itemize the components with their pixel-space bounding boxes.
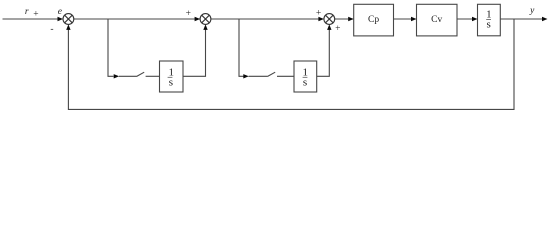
wire loop1 arrow to switch — [119, 75, 137, 77]
svg-text:+: + — [33, 10, 38, 20]
block U1 integrator 1/s — [160, 61, 184, 92]
summing junction sum3 — [324, 14, 335, 25]
svg-text:Cv: Cv — [431, 15, 442, 25]
svg-text:s: s — [169, 76, 173, 88]
arrowhead into sum2 — [195, 17, 201, 21]
svg-text:+: + — [335, 24, 340, 34]
wire sum3 to Cp — [335, 18, 353, 20]
wire Cv to integrator U3 — [457, 18, 477, 20]
wire switch SW2 to U2 — [277, 75, 294, 77]
block U3 integrator 1/s — [478, 4, 501, 36]
switch SW1 lever — [137, 72, 145, 76]
svg-text:-: - — [50, 25, 53, 35]
arrowhead feedback up into sum1 — [66, 24, 70, 30]
svg-text:y: y — [529, 6, 535, 16]
wire loop2 arrow to switch — [249, 75, 268, 77]
wire Cp to Cv — [394, 18, 416, 20]
arrowhead into Cv — [411, 17, 417, 21]
wire main feedback y to sum1 — [68, 19, 514, 109]
arrowhead into sum3 — [318, 17, 324, 21]
arrowhead into U3 — [472, 17, 478, 21]
block Cp — [354, 4, 394, 36]
wire U3 to output y — [500, 18, 545, 20]
svg-text:r: r — [25, 7, 29, 17]
wire sum2 to sum3 — [211, 18, 323, 20]
svg-text:s: s — [303, 76, 307, 88]
block Cv — [417, 4, 458, 36]
svg-text:+: + — [316, 9, 321, 19]
switch SW2 lever — [267, 72, 275, 76]
wire U2 up to sum3 — [317, 29, 330, 76]
wire switch SW1 to U1 — [146, 75, 160, 77]
block U2 integrator 1/s — [294, 61, 317, 92]
wire input r to sum1 — [3, 18, 63, 20]
svg-text:s: s — [486, 19, 490, 31]
arrowhead output y — [542, 17, 548, 21]
svg-text:Cp: Cp — [368, 15, 379, 25]
svg-text:e: e — [58, 7, 62, 17]
arrowhead up into sum3 — [327, 24, 331, 30]
wire loop2 branch down — [239, 19, 244, 76]
arrowhead into Cp — [348, 17, 354, 21]
wire sum1 to sum2 — [74, 18, 200, 20]
arrowhead up into sum2 — [203, 24, 207, 30]
summing junction sum1 — [63, 14, 74, 25]
arrowhead loop1 — [114, 74, 120, 78]
summing junction sum2 — [200, 14, 211, 25]
arrowhead loop2 — [243, 74, 249, 78]
wire loop1 branch down — [108, 19, 114, 76]
svg-text:+: + — [186, 9, 191, 19]
wire U1 up to sum2 — [183, 29, 206, 76]
arrowhead into sum1 — [58, 17, 64, 21]
